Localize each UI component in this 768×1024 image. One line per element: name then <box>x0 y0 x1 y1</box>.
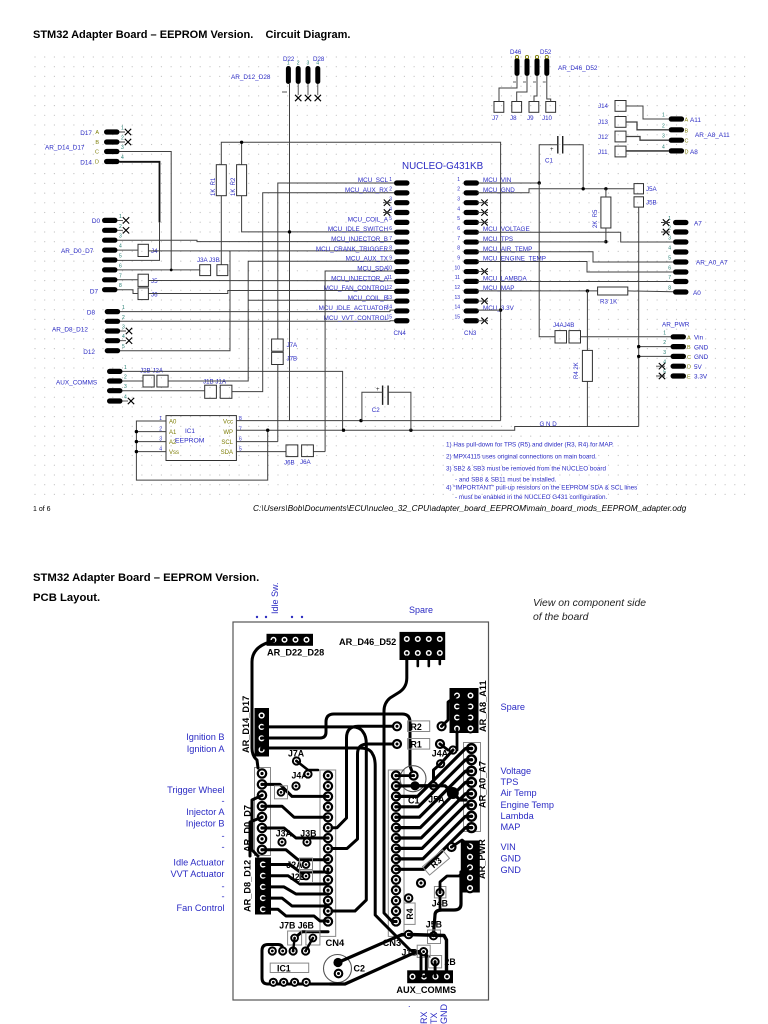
svg-text:Vin: Vin <box>694 335 704 342</box>
svg-text:5: 5 <box>668 256 671 262</box>
svg-text:VVT Actuator: VVT Actuator <box>171 869 225 879</box>
capacitor C1 <box>558 136 563 154</box>
svg-text:A0: A0 <box>169 419 177 425</box>
svg-text:4: 4 <box>122 334 125 340</box>
svg-text:AR_D8_D12: AR_D8_D12 <box>52 327 88 334</box>
svg-text:+: + <box>550 147 554 153</box>
svg-text:9: 9 <box>389 256 392 262</box>
svg-text:8: 8 <box>668 286 671 292</box>
svg-text:1 of 6: 1 of 6 <box>33 506 51 513</box>
svg-text:R3 1K: R3 1K <box>600 299 618 306</box>
wire J7B to EEPROM SCL <box>277 365 279 442</box>
svg-text:2: 2 <box>389 187 392 193</box>
jumper box J1B <box>205 385 217 398</box>
jumper box J11 <box>615 146 626 157</box>
jumper box J6A <box>302 445 314 457</box>
connector AUX_COMMS <box>56 365 134 404</box>
jumper box J14 <box>615 101 626 112</box>
svg-text:4: 4 <box>662 144 665 150</box>
wire MCU_AIR_TEMP to pad5 <box>478 252 674 262</box>
svg-text:4: 4 <box>121 155 124 161</box>
wire D9 -> MCU_VVT_CONTROL <box>120 320 394 323</box>
jumper box J5 <box>138 274 148 286</box>
svg-text:-: - <box>221 892 224 902</box>
svg-text:J13: J13 <box>598 119 609 126</box>
svg-text:J8: J8 <box>510 115 517 122</box>
svg-text:J14: J14 <box>598 103 609 110</box>
svg-text:14: 14 <box>454 305 460 311</box>
svg-text:AR_D14_D17: AR_D14_D17 <box>45 145 85 152</box>
svg-text:MCU_AUX_TX: MCU_AUX_TX <box>346 256 389 263</box>
svg-text:4: 4 <box>124 395 127 401</box>
svg-text:View on component side: View on component side <box>533 598 646 609</box>
jumper box J13 <box>615 117 626 128</box>
svg-text:C: C <box>685 139 689 145</box>
connector AR_D46_D52 <box>510 49 598 82</box>
svg-text:G N D: G N D <box>540 421 558 428</box>
jumper box J8 <box>512 102 522 113</box>
svg-text:4: 4 <box>119 244 122 250</box>
wire VIN down to J4A <box>539 183 555 337</box>
wires AR_PWR gnd pads <box>639 346 671 348</box>
3.3V rail from R1/R2 tops to vertical x500 <box>221 142 500 420</box>
svg-text:MCU_INJECTOR_B: MCU_INJECTOR_B <box>331 236 388 243</box>
svg-text:D: D <box>687 365 691 371</box>
svg-text:B: B <box>687 345 691 351</box>
svg-text:4) “IMPORTANT” pull-up resisto: 4) “IMPORTANT” pull-up resistors on the … <box>446 485 637 492</box>
svg-text:2B: 2B <box>445 957 456 967</box>
jumper box J6B <box>286 445 298 457</box>
svg-text:1: 1 <box>119 214 122 220</box>
svg-text:AUX_COMMS: AUX_COMMS <box>56 380 97 387</box>
svg-text:7: 7 <box>389 236 392 242</box>
EEPROM left pins bus to gnd <box>136 421 267 480</box>
connector AR_A8_A11 <box>662 113 730 157</box>
header AR_A8_A11 (pcb) <box>450 680 489 733</box>
svg-text:1: 1 <box>457 177 460 183</box>
svg-text:1: 1 <box>124 365 127 371</box>
svg-text:3: 3 <box>457 196 460 202</box>
svg-text:Injector B: Injector B <box>186 819 225 829</box>
svg-text:6: 6 <box>668 266 671 272</box>
trace arc D14_D17 pad3 to C1 <box>262 714 414 776</box>
svg-text:D8: D8 <box>87 310 96 317</box>
pcb outline <box>233 622 489 1000</box>
svg-text:J5B: J5B <box>646 200 657 207</box>
svg-text:AR_A8_A11: AR_A8_A11 <box>695 132 730 139</box>
header AR_A0_A7 (pcb) <box>464 743 488 833</box>
connector AR_D8_D12 <box>52 305 132 356</box>
svg-text:2: 2 <box>668 226 671 232</box>
svg-text:MCU_FAN_CONTROL: MCU_FAN_CONTROL <box>324 285 389 292</box>
svg-text:D46: D46 <box>510 49 522 56</box>
svg-text:5V: 5V <box>694 364 703 371</box>
svg-text:AR_A0_A7: AR_A0_A7 <box>696 260 728 267</box>
wire MCU_VOLTAGE to A0_A7 pad3 <box>478 232 674 242</box>
svg-text:11: 11 <box>455 275 460 281</box>
svg-text:D7: D7 <box>90 289 99 296</box>
trace C1 region <box>400 766 426 792</box>
svg-text:R2: R2 <box>411 722 422 732</box>
svg-text:J4: J4 <box>151 248 158 255</box>
svg-text:J4AJ4B: J4AJ4B <box>553 322 574 329</box>
svg-text:1: 1 <box>122 305 125 311</box>
trace D14_D17 pad2 to CN4 pin14 <box>262 727 367 911</box>
svg-text:D12: D12 <box>83 349 95 356</box>
jumper box J2B <box>143 375 154 387</box>
svg-text:5: 5 <box>119 254 122 260</box>
wire J4B to AR_PWR pin1 <box>581 336 671 338</box>
jumper box J10 <box>546 102 556 113</box>
svg-text:J6A: J6A <box>300 459 312 466</box>
svg-text:1) Has pull-down for TPS (R5): 1) Has pull-down for TPS (R5) and divide… <box>446 442 614 449</box>
svg-text:AR_A0_A7: AR_A0_A7 <box>478 761 488 808</box>
svg-text:NUCLEO-G431KB: NUCLEO-G431KB <box>402 161 484 172</box>
J4B <box>434 887 446 898</box>
solder blob <box>447 787 459 799</box>
svg-text:J7A: J7A <box>287 342 299 349</box>
wire MCU_LAMBDA to pad7 <box>478 281 674 283</box>
svg-text:Idle Sw.: Idle Sw. <box>270 582 280 614</box>
wire MCU_COIL_B <box>248 299 394 301</box>
jumper box J3A <box>200 265 211 276</box>
wire D12 -> crank net vertical <box>120 251 230 351</box>
svg-text:J6B: J6B <box>284 460 295 467</box>
svg-text:Idle Actuator: Idle Actuator <box>173 858 224 868</box>
svg-text:MCU_SDA: MCU_SDA <box>357 266 389 273</box>
IC U1 EEPROM <box>159 416 242 461</box>
svg-text:MCU_COIL_B: MCU_COIL_B <box>348 295 388 302</box>
svg-text:E: E <box>687 375 691 381</box>
svg-text:1: 1 <box>668 216 671 222</box>
svg-text:A8: A8 <box>690 149 698 156</box>
trace R2 to CN4 pin6 <box>332 726 397 827</box>
wire J5B bottom down to AR_PWR gnd <box>638 207 640 426</box>
svg-text:Voltage: Voltage <box>501 766 532 776</box>
jumper box J5B <box>634 197 644 207</box>
traces D0_D7 jumpers <box>262 784 328 796</box>
svg-text:8: 8 <box>389 246 392 252</box>
R2 bottom to MCU_IDLE_SWITCH <box>242 196 394 232</box>
svg-text:AR_D12_D28: AR_D12_D28 <box>231 74 271 81</box>
svg-text:J5A: J5A <box>428 795 445 805</box>
svg-text:PCB Layout.: PCB Layout. <box>33 592 100 604</box>
R3 diagonal <box>423 850 450 875</box>
svg-text:A1: A1 <box>169 430 177 436</box>
svg-text:J3A: J3A <box>276 829 293 839</box>
svg-text:TX: TX <box>429 1012 439 1024</box>
svg-text:Vcc: Vcc <box>223 419 233 425</box>
svg-text:2: 2 <box>662 123 665 129</box>
svg-text:MAP: MAP <box>501 822 521 832</box>
svg-text:.: . <box>408 999 411 1009</box>
svg-text:C2: C2 <box>354 964 366 974</box>
wire D28 pad1 down to idle-switch net and 3.3V rail <box>289 84 291 421</box>
AUX_COMMS header (pcb) <box>396 970 456 995</box>
trace C2 to CN3 diagonal <box>330 952 424 984</box>
svg-text:J11: J11 <box>598 149 608 156</box>
svg-text:3: 3 <box>668 236 671 242</box>
svg-text:+: + <box>376 387 380 393</box>
grid dots (decorative) <box>34 56 745 495</box>
svg-text:AR_D46_D52: AR_D46_D52 <box>339 637 396 647</box>
wires J14..J11 to AR_A8_A11 <box>626 106 669 119</box>
header AR_D0_D7 (pcb) <box>243 768 271 856</box>
svg-text:A: A <box>95 130 99 136</box>
resistor R2 1K <box>237 165 247 196</box>
svg-text:R3: R3 <box>429 855 444 870</box>
svg-text:3: 3 <box>119 234 122 240</box>
svg-text:AR_D22_D28: AR_D22_D28 <box>267 648 324 658</box>
svg-text:3: 3 <box>124 384 127 390</box>
jumper box J4A <box>555 331 567 343</box>
R1 bottom to jumper J3B <box>220 196 222 265</box>
R4 vertical <box>404 903 415 924</box>
svg-text:C1: C1 <box>545 158 553 165</box>
svg-text:Vss: Vss <box>169 450 179 456</box>
jumper box J7A <box>272 339 284 351</box>
svg-text:A0: A0 <box>693 290 701 297</box>
svg-text:AR_D14_D17: AR_D14_D17 <box>241 696 251 753</box>
svg-text:EEPROM: EEPROM <box>175 438 205 445</box>
svg-text:2: 2 <box>457 187 460 193</box>
svg-text:MCU_IDLE_ACTUATOR: MCU_IDLE_ACTUATOR <box>319 305 389 312</box>
svg-text:A7: A7 <box>694 221 702 228</box>
EEPROM SCL wire <box>236 441 277 443</box>
svg-text:2) MPX4115 uses original conne: 2) MPX4115 uses original connections on … <box>446 454 597 461</box>
header AR_D22_D28 (pcb) <box>267 634 325 658</box>
svg-text:AUX_COMMS: AUX_COMMS <box>396 985 456 995</box>
wire MCU_TPS <box>478 241 606 243</box>
svg-text:15: 15 <box>454 315 460 321</box>
jumper box J6 <box>138 288 148 300</box>
svg-text:A: A <box>685 118 689 124</box>
jumper box J3B <box>217 265 228 276</box>
svg-text:J12: J12 <box>598 134 609 141</box>
traces D8_D12 jumpers <box>263 865 328 873</box>
header CN3 <box>454 177 546 337</box>
svg-text:A11: A11 <box>690 117 701 124</box>
svg-text:of the board: of the board <box>533 612 590 623</box>
svg-text:3) SB2 & SB3 must be removed f: 3) SB2 & SB3 must be removed from the NU… <box>446 466 606 473</box>
svg-text:Lambda: Lambda <box>501 811 535 821</box>
svg-text:AR_D46_D52: AR_D46_D52 <box>558 65 598 72</box>
GND rail <box>236 427 638 431</box>
svg-text:Injector A: Injector A <box>186 807 225 817</box>
jumper box J9 <box>529 102 539 113</box>
svg-text:1: 1 <box>121 126 124 132</box>
svg-text:C: C <box>687 355 691 361</box>
wire AUX pad1 to GND rail <box>123 371 343 430</box>
svg-text:13: 13 <box>454 295 460 301</box>
C2 cap (pcb) <box>324 955 352 983</box>
R2 silk + pads <box>408 721 430 732</box>
trace AR_PWR down to J5B <box>434 872 462 934</box>
svg-text:-: - <box>221 796 224 806</box>
wire D14 pad D to MCU_COIL_A (thick) <box>120 162 160 223</box>
connector AR_A0_A7 <box>661 216 728 297</box>
svg-text:5: 5 <box>457 216 460 222</box>
R1 silk + pads <box>408 739 430 750</box>
svg-text:2: 2 <box>297 61 300 67</box>
svg-text:J5A: J5A <box>646 186 658 193</box>
IC1 silk <box>270 963 309 972</box>
svg-text:6: 6 <box>457 226 460 232</box>
svg-text:J6: J6 <box>151 292 158 299</box>
svg-text:MCU_INJECTOR_A: MCU_INJECTOR_A <box>331 275 389 282</box>
svg-text:3.3V: 3.3V <box>694 374 708 381</box>
jumper box J4B <box>569 331 581 343</box>
wire MCU_GND to J5A <box>478 189 635 193</box>
svg-text:Fan Control: Fan Control <box>176 903 224 913</box>
svg-text:12: 12 <box>454 285 460 291</box>
svg-text:AR_PWR: AR_PWR <box>477 839 487 879</box>
svg-text:5: 5 <box>122 344 125 350</box>
svg-text:CN4: CN4 <box>394 330 407 337</box>
svg-text:STM32 Adapter Board – EEPROM V: STM32 Adapter Board – EEPROM Version. <box>33 572 259 584</box>
svg-text:- and SB8 & SB11 must be insta: - and SB8 & SB11 must be installed. <box>455 477 557 484</box>
resistor R3 1K <box>598 287 628 295</box>
svg-text:GND: GND <box>501 865 522 875</box>
capacitor C2 <box>383 386 389 405</box>
svg-text:7: 7 <box>668 275 671 281</box>
svg-text:4: 4 <box>668 246 671 252</box>
wire MCU_SCL to J7A <box>278 183 394 339</box>
svg-text:B: B <box>95 140 99 146</box>
wires D46_D52 pads to J7..J10 <box>499 76 517 102</box>
svg-text:-: - <box>221 881 224 891</box>
svg-text:3: 3 <box>662 134 665 140</box>
trace D46_D52 down to CN3 pin15 <box>384 657 407 922</box>
svg-text:J5: J5 <box>151 278 158 285</box>
svg-text:D14: D14 <box>80 160 92 167</box>
jumper box J7 <box>494 102 504 113</box>
svg-text:6: 6 <box>389 226 392 232</box>
wire MCU_ENGINE_TEMP to pad6 <box>478 262 674 273</box>
svg-text:D28: D28 <box>313 56 325 63</box>
EEPROM SDA wire through J6B/J6A <box>236 451 286 453</box>
3.3V rail to EEPROM Vcc <box>236 420 500 422</box>
wire R4 top <box>586 291 588 351</box>
IC1 pads rows <box>269 947 310 986</box>
header AR_D8_D12 (pcb) <box>243 858 272 915</box>
wire MCU_MAP through R3 to pad8 <box>478 290 598 292</box>
svg-text:Engine Temp: Engine Temp <box>501 800 554 810</box>
connector AR_D14_D17 <box>45 126 131 167</box>
svg-text:TPS: TPS <box>501 777 519 787</box>
svg-text:AR_PWR: AR_PWR <box>662 322 690 329</box>
svg-text:MCU_CRANK_TRIGGER: MCU_CRANK_TRIGGER <box>316 246 389 253</box>
header CN4 (pcb) <box>320 770 345 948</box>
trace D14_D17 pad4 to J1B diagonal <box>262 748 429 957</box>
svg-text:J7B: J7B <box>287 356 298 363</box>
svg-text:1: 1 <box>662 113 665 119</box>
wire MCU_VIN <box>479 182 539 184</box>
svg-text:CN4: CN4 <box>326 937 346 948</box>
wire pad6 D0_D7 to J3A <box>117 269 199 271</box>
svg-text:Ignition B: Ignition B <box>186 732 224 742</box>
traces AUX area <box>421 954 435 977</box>
svg-text:J1B: J1B <box>402 948 418 958</box>
svg-text:J10: J10 <box>542 115 553 122</box>
traces left bundle <box>252 641 274 768</box>
trace R4 bottom to AUX pad4 <box>409 935 447 977</box>
jumper box J2A <box>157 375 168 387</box>
svg-text:C1: C1 <box>408 796 420 806</box>
svg-text:6: 6 <box>119 263 122 269</box>
svg-text:C2: C2 <box>372 407 380 414</box>
svg-text:1K R2: 1K R2 <box>231 177 237 196</box>
resistor R4 2K <box>582 350 592 381</box>
wire D8 -> MCU_IDLE_ACTUATOR <box>120 310 394 312</box>
svg-text:-: - <box>221 831 224 841</box>
svg-text:WP: WP <box>223 430 233 436</box>
svg-text:MCU_3.3V: MCU_3.3V <box>483 305 515 312</box>
svg-text:IC1: IC1 <box>185 428 195 435</box>
wires AR_D0_D7 <box>118 240 395 241</box>
jumper box J4 <box>138 244 148 256</box>
wire AUX pad3 - J1B/J1A - MCU_AUX_RX <box>123 390 205 392</box>
resistor R5 2K <box>601 197 611 228</box>
header AR_D46_D52 (pcb) <box>339 632 445 660</box>
trace R1 to CN4 pin8 <box>332 744 397 849</box>
connector AR_D0_D7 <box>61 214 129 296</box>
svg-text:7: 7 <box>239 427 242 433</box>
svg-text:2: 2 <box>119 224 122 230</box>
svg-text:D: D <box>95 160 99 166</box>
dot 3.3V at pin14 <box>499 308 502 311</box>
resistor R1 1K <box>216 165 226 196</box>
svg-text:10: 10 <box>454 265 460 271</box>
blue top dots <box>256 616 303 618</box>
svg-text:AR_D0_D7: AR_D0_D7 <box>61 248 94 255</box>
connector AR_D12_D28 <box>231 56 325 101</box>
svg-text:J7B J6B: J7B J6B <box>279 921 314 931</box>
trace CN4 bottom loop <box>295 932 328 938</box>
svg-text:GND: GND <box>439 1004 449 1024</box>
svg-text:2: 2 <box>121 136 124 142</box>
svg-text:AR_A8_A11: AR_A8_A11 <box>478 680 488 732</box>
traces CN3 to A0_A7 fan <box>396 749 472 797</box>
svg-text:C: C <box>95 150 99 156</box>
traces R1 R2 right <box>442 696 457 727</box>
svg-text:Ignition A: Ignition A <box>187 744 226 754</box>
svg-text:MCU_VVT_CONTROL: MCU_VVT_CONTROL <box>324 315 389 322</box>
svg-text:J7: J7 <box>492 115 499 122</box>
svg-text:1K R1: 1K R1 <box>211 177 217 196</box>
svg-text:J3B: J3B <box>300 829 316 839</box>
svg-text:1: 1 <box>389 177 392 183</box>
svg-text:4: 4 <box>457 206 460 212</box>
svg-text:SCL: SCL <box>221 440 233 446</box>
svg-text:2: 2 <box>122 315 125 321</box>
svg-text:J3A J3B: J3A J3B <box>197 257 220 264</box>
svg-text:1: 1 <box>663 330 666 336</box>
svg-text:7: 7 <box>457 236 460 242</box>
svg-text:3: 3 <box>307 61 310 67</box>
svg-text:MCU_COIL_A: MCU_COIL_A <box>348 216 389 223</box>
svg-text:D17: D17 <box>80 130 92 137</box>
svg-text:A: A <box>687 335 691 341</box>
svg-text:3: 3 <box>663 350 666 356</box>
svg-text:AR_D8_D12: AR_D8_D12 <box>243 860 253 912</box>
svg-text:IC1: IC1 <box>277 963 291 973</box>
svg-text:2: 2 <box>124 375 127 381</box>
header CN4 <box>316 177 410 337</box>
svg-text:SDA: SDA <box>221 450 233 456</box>
svg-text:MCU_AUX_RX: MCU_AUX_RX <box>345 187 389 194</box>
svg-text:STM32 Adapter Board – EEPROM V: STM32 Adapter Board – EEPROM Version. Ci… <box>33 29 350 41</box>
